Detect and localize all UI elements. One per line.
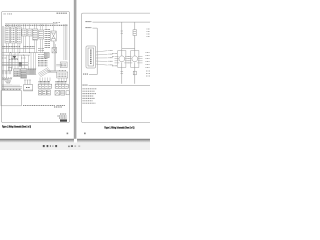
bus wire top: [5, 23, 58, 25]
pin label text right margin (cut): [146, 53, 151, 68]
ground bus L1: [89, 85, 151, 87]
zoom dot: [68, 146, 69, 148]
bus wire D: [2, 62, 28, 64]
page gap shadow between sheets: [73, 0, 77, 139]
wire drops from splice: [59, 78, 67, 82]
connector CN1 outer shell: [86, 46, 96, 68]
legend text line 7: [83, 102, 96, 104]
wire drops to bus: [7, 36, 54, 78]
motor M2: [128, 48, 143, 83]
legend text line 5: [83, 97, 96, 99]
bus wire F: [2, 65, 28, 67]
node L1 label: [83, 84, 88, 86]
node P3 label: [83, 73, 88, 75]
wire stubs above components: [7, 24, 54, 31]
junction dots: [10, 52, 30, 56]
status text faint 1: [74, 145, 76, 147]
pin arrows into connector C4: [24, 80, 31, 85]
harness fan from CN1: [96, 51, 108, 65]
wire label text row: [5, 24, 68, 26]
module U2: [39, 30, 44, 39]
border frame sheet 2: [82, 13, 150, 122]
margin note text (cut at edge): [147, 29, 151, 37]
wire drop to motor M2: [134, 22, 136, 48]
legend text line 2: [83, 90, 95, 92]
fan wire labels: [109, 50, 114, 65]
wire stubs mid right: [54, 42, 55, 71]
terminal comb TS1: [2, 71, 12, 74]
motor M1: [115, 48, 130, 83]
page number 13: [67, 133, 69, 135]
pin list text column: [45, 30, 50, 48]
connector CN1 vertical label: [90, 50, 92, 65]
terminal box TB1: [60, 62, 67, 68]
connector J1: [5, 27, 10, 43]
splice block SP1: [57, 72, 68, 78]
legend text line 1: [83, 88, 97, 90]
title text top-left: [4, 13, 13, 15]
fuse F2: [133, 30, 137, 36]
page background (two white sheets): [0, 0, 150, 150]
page number 14: [84, 133, 86, 135]
switch S1 crossed box: [51, 31, 56, 41]
terminal row above notes panel: [3, 88, 22, 90]
nav button first-page: [43, 145, 45, 147]
wire stubs into notes panel row: [3, 84, 19, 87]
notes panel (empty box): [1, 91, 22, 106]
inline connector ticks on rails: [121, 72, 124, 74]
fuse block FB1: [38, 78, 51, 96]
switch S3 marks: [2, 58, 26, 60]
ground bus double line: [2, 87, 22, 89]
node label text row: [53, 22, 60, 24]
page bottom shadow right: [77, 139, 150, 143]
control module U1: [33, 29, 38, 40]
harness fan to splice: [3, 77, 13, 84]
bus wire E: [2, 63, 28, 65]
nav button prev-page: [47, 145, 49, 147]
connector CN1 body: [88, 48, 94, 66]
legend text line 3: [83, 93, 97, 95]
connector J2: [11, 27, 16, 43]
node P1 label: [86, 21, 92, 23]
relay block K3: [55, 81, 69, 95]
caption: Figure 1. Wiring Schematic (Sheet 1 of 2): [2, 126, 31, 129]
net name ticks: [38, 49, 44, 55]
bus wire A: [2, 47, 35, 49]
inline terminal ticks on M1 drop: [121, 31, 123, 33]
harness bundle wires: [47, 71, 57, 73]
border frame sheet 1: [2, 12, 70, 123]
inline fuse F3: [133, 71, 136, 75]
wire drops to lower buses: [10, 53, 36, 71]
connector C2: [14, 69, 20, 77]
connector C4: [24, 85, 33, 91]
wire P2: [93, 28, 98, 74]
diode D1 solid symbol: [13, 56, 17, 59]
nav button next-page: [55, 145, 57, 147]
wire crossbar: [122, 47, 135, 49]
legend text line 4: [83, 95, 94, 97]
harness diagonal fan: [38, 68, 51, 77]
motor M1 enclosure: [118, 51, 126, 68]
pin label text left of M1: [112, 54, 117, 66]
terminal list text: [38, 57, 48, 66]
legend text line 6: [83, 100, 93, 102]
net label text above bus: [3, 46, 36, 48]
status text faint 2: [78, 145, 80, 147]
wire to terminal box: [56, 64, 62, 66]
bus stub lines lower left: [2, 78, 12, 79]
status bar: [0, 143, 150, 150]
wire P1 rail: [93, 21, 151, 23]
switch S2 crossed box: [52, 48, 57, 53]
wire P3 to P2 drop: [89, 74, 97, 76]
page field divider: [49, 145, 52, 147]
node P2 label: [86, 27, 92, 29]
bus wire C: [2, 54, 30, 56]
page count text: [52, 145, 53, 146]
connector C3 dense: [21, 69, 27, 79]
margin note lower right (cut): [146, 71, 150, 76]
page bottom shadow left: [0, 139, 74, 143]
splice joint on bus: [19, 62, 22, 66]
svg-text:Figure 1. Wiring Schematic (Sh: Figure 1. Wiring Schematic (Sheet 1 of 2…: [2, 126, 31, 129]
inline connector on wire: [8, 67, 11, 70]
bus wire B: [2, 52, 46, 54]
contactor CB1: [44, 52, 49, 57]
title block text: [58, 114, 67, 118]
connector J3: [16, 27, 21, 43]
splice label text: [58, 70, 67, 72]
drawing number text top-right: [57, 12, 68, 14]
relay K1: [22, 29, 27, 36]
motor M2 enclosure: [131, 51, 139, 68]
wire drop to motor M1: [121, 22, 123, 48]
terminal comb TS2: [27, 69, 36, 75]
RIGHT PAGE : wiring schematic sheet 2: [82, 13, 150, 134]
note text line: [23, 105, 65, 107]
zoom level text: [71, 145, 73, 147]
LEFT PAGE : wiring schematic sheet 1: [1, 12, 69, 135]
wire (left harness verticals): [2, 26, 3, 90]
relay K2: [28, 29, 32, 36]
wire (right harness verticals): [64, 24, 67, 60]
title block solid bar: [60, 119, 67, 121]
svg-text:Figure 2. Wiring Schematic (Sh: Figure 2. Wiring Schematic (Sheet 2 of 2…: [104, 126, 134, 129]
caption: Figure 2. Wiring Schematic (Sheet 2 of 2): [104, 126, 134, 129]
